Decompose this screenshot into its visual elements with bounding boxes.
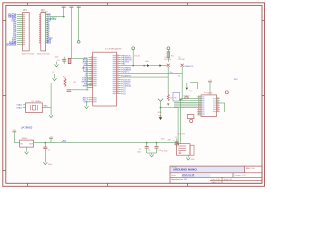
- capacitor C4 (polarized): [68, 58, 71, 63]
- red circle flag: [225, 91, 228, 94]
- IC1 left lower pin: [89, 101, 93, 103]
- JP2 pin 13 wire: [46, 38, 49, 40]
- svg-text:FT232RL: FT232RL: [204, 93, 214, 95]
- svg-text:XTAL1: XTAL1: [16, 104, 23, 107]
- svg-text:XTAL2: XTAL2: [16, 107, 23, 110]
- JP2 pin 15 wire: [46, 42, 49, 44]
- usb shield ground: [187, 155, 189, 157]
- JP1 pin 1 wire: [17, 14, 23, 16]
- capacitor C9: [146, 142, 148, 144]
- capacitor C7 (polarized): [176, 138, 178, 142]
- Q1 gnd wire: [42, 106, 51, 108]
- svg-text:CD1206: CD1206: [178, 59, 185, 61]
- power flag 3V3: [77, 6, 81, 8]
- IC1 left lower pin: [89, 99, 93, 101]
- X2 circle: [190, 119, 193, 122]
- resistor R1 (reset pullup): [64, 78, 66, 86]
- IC2 right pins: [217, 98, 220, 100]
- capacitor C10: [156, 142, 158, 144]
- vcc circle node: [77, 41, 80, 44]
- usb data wires: [180, 100, 182, 144]
- IC2 left pins: [197, 96, 201, 98]
- resistor R3 with vcc circle: [167, 47, 170, 50]
- caps shared ground: [147, 152, 157, 154]
- svg-text:M20-9721545: M20-9721545: [22, 54, 35, 56]
- wire to usb data: [161, 107, 179, 109]
- frame tick marks: [27, 3, 29, 6]
- svg-text:78M05: 78M05: [22, 138, 28, 140]
- power flag above IC2: [208, 81, 212, 83]
- usb connector J1: [177, 144, 191, 156]
- power flag +5V rail: [49, 137, 53, 139]
- power flag VIN: [70, 6, 74, 8]
- JP1 pin 12 wire: [17, 36, 23, 38]
- power flag VIN bottom: [12, 131, 16, 133]
- bus/group box: [173, 92, 180, 101]
- svg-text:GND: GND: [191, 159, 196, 161]
- JP1 pin 15 wire: [17, 42, 23, 44]
- svg-text:REV: 3.0: REV: 3.0: [246, 168, 255, 170]
- JP1 pin 6 wire: [17, 24, 23, 26]
- JP2 pin 6 wire: [46, 24, 49, 26]
- svg-text:GND: GND: [44, 106, 49, 108]
- frame inner border: [6, 5, 262, 183]
- JP2 pin 5 wire: [46, 22, 49, 24]
- svg-text:C7: C7: [175, 137, 177, 139]
- svg-text:+5V: +5V: [62, 139, 67, 143]
- JP1 pin 10 wire: [17, 32, 23, 34]
- svg-text:Gravitech.us TH: Gravitech.us TH: [171, 178, 187, 181]
- frame outer border: [3, 3, 265, 187]
- svg-text:47u 25V: 47u 25V: [178, 134, 186, 136]
- JP1 pin 9 wire: [17, 30, 23, 32]
- junction: [63, 16, 65, 18]
- svg-text:CD1206: CD1206: [164, 59, 171, 61]
- arrow node: [167, 103, 169, 105]
- JP2 pin 1 wire: [46, 14, 49, 16]
- title block: [170, 166, 262, 183]
- ground arrow left cluster: [56, 62, 58, 65]
- svg-text:Sheet: 1/1: Sheet: 1/1: [224, 178, 233, 181]
- JP2 pin 2 wire: [46, 16, 49, 18]
- svg-text:NANO-3.0: NANO-3.0: [212, 181, 221, 184]
- svg-text:M20-9721545: M20-9721545: [37, 54, 50, 56]
- JP1 pin 8 wire: [17, 28, 23, 30]
- wires into IC1 left pins: [84, 64, 93, 66]
- JP2 pin 14 wire: [46, 40, 49, 42]
- svg-text:D13: D13: [47, 43, 52, 45]
- svg-text:Doc: 1.16: Doc: 1.16: [212, 179, 220, 181]
- capacitor C6: [44, 142, 46, 144]
- resonator Q1 box: [26, 103, 43, 113]
- component X2 box: [187, 115, 194, 119]
- svg-text:100n: 100n: [55, 56, 59, 58]
- svg-text:R4: R4: [170, 98, 172, 100]
- op IC1 ATMEGA328 box: [93, 52, 117, 106]
- svg-text:JP1: JP1: [23, 9, 28, 12]
- svg-text:100u: 100u: [48, 164, 52, 166]
- svg-text:GND: GND: [158, 112, 163, 114]
- JP2 pin 3 wire: [46, 18, 49, 20]
- IC2 input bundle wires: [181, 98, 198, 100]
- junction usb vcc: [180, 99, 182, 101]
- svg-text:Drawn: J.G: Drawn: J.G: [235, 174, 246, 177]
- svg-text:C3: C3: [52, 72, 54, 74]
- capacitor C snippet: [67, 89, 72, 91]
- JP2 pin 9 wire: [46, 30, 49, 32]
- JP1 pin 16 wire: [17, 44, 23, 46]
- resistor R2 with vcc circle: [132, 47, 135, 50]
- connector JP2: [41, 13, 46, 51]
- svg-text:3V3: 3V3: [77, 5, 80, 7]
- JP2 pin 4 wire: [46, 20, 49, 22]
- JP1 pin 13 wire: [17, 38, 23, 40]
- svg-text:USBVCC: USBVCC: [184, 66, 194, 68]
- svg-text:R2 1K: R2 1K: [134, 55, 140, 57]
- svg-text:+5V: +5V: [50, 17, 57, 21]
- JP2 pin 11 wire: [46, 34, 49, 36]
- wire +5V from JP2 to power rail: [48, 16, 63, 18]
- resistor R4: [167, 94, 169, 101]
- svg-text:ARDUINO NANO: ARDUINO NANO: [173, 168, 197, 172]
- Q1 left pin wires + labels: [23, 104, 26, 106]
- regulator gnd: [26, 147, 28, 152]
- svg-text:2013-01-15: 2013-01-15: [182, 174, 195, 177]
- svg-text:C9: C9: [148, 150, 150, 152]
- wire continuation TX net: [150, 65, 160, 67]
- svg-text:M20-982: M20-982: [41, 11, 48, 13]
- JP1 pin 14 wire: [17, 40, 23, 42]
- shield triangle: [186, 88, 188, 90]
- svg-text:AREF: AREF: [83, 84, 89, 87]
- JP2 pin 10 wire: [46, 32, 49, 34]
- power flag +5V: [62, 6, 66, 8]
- svg-text:100n: 100n: [137, 151, 141, 153]
- JP2 pin 8 wire: [46, 28, 49, 30]
- svg-text:C6: C6: [48, 149, 50, 151]
- IC1 left pins: [89, 57, 93, 59]
- connector JP1: [23, 13, 30, 51]
- capacitor C5: [63, 57, 65, 60]
- +5V rail wire: [34, 142, 177, 144]
- IC2 FT232RL box: [201, 95, 217, 117]
- svg-text:Date:: Date:: [171, 174, 177, 177]
- wire D+: [121, 73, 183, 75]
- svg-text:PD5/T1: PD5/T1: [121, 72, 129, 74]
- svg-text:Q1 16MHz: Q1 16MHz: [32, 101, 42, 103]
- svg-text:100n: 100n: [161, 139, 165, 141]
- svg-text:D-: D-: [178, 76, 180, 78]
- svg-text:UA78M05: UA78M05: [21, 125, 33, 129]
- JP1 pin 7 wire: [17, 26, 23, 28]
- IC1 left lower pin: [89, 97, 93, 99]
- vertical wires into IC1 left: [83, 65, 85, 71]
- JP2 pin 12 wire: [46, 36, 49, 38]
- JP1 pin 2 wire: [17, 16, 23, 18]
- wire D-: [121, 76, 169, 78]
- wire to gnd cluster: [51, 74, 54, 83]
- JP1 pin 3 wire: [17, 18, 23, 20]
- svg-text:D13/SCK: D13/SCK: [7, 45, 17, 47]
- wire TX net with arrow: [121, 65, 147, 67]
- svg-text:L1: L1: [190, 90, 192, 92]
- IC1 gnd wire bottom left: [87, 101, 89, 103]
- title row highlight: [170, 167, 244, 173]
- IC2 right L wire: [217, 102, 225, 104]
- IC1 right pins + labels: [117, 55, 121, 57]
- svg-text:GND: GND: [84, 63, 89, 65]
- JP1 pin 4 wire: [17, 20, 23, 22]
- JP1 pin 11 wire: [17, 34, 23, 36]
- regulator U2 box: [20, 140, 34, 147]
- svg-text:IC1 ATMEGA328P: IC1 ATMEGA328P: [105, 48, 122, 51]
- svg-text:LED: LED: [145, 61, 149, 63]
- svg-text:C4 100n: C4 100n: [161, 151, 168, 153]
- JP2 pin 7 wire: [46, 26, 49, 28]
- gnd fork node: [158, 99, 163, 102]
- step wire above IC2: [190, 82, 198, 84]
- JP1 pin 5 wire: [17, 22, 23, 24]
